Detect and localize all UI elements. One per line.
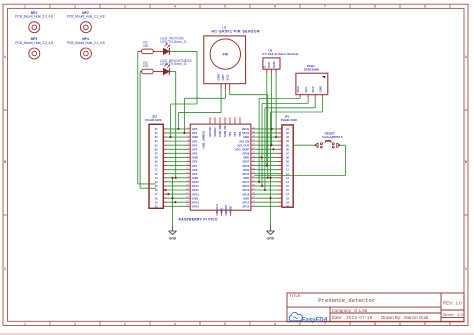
svg-text:08: 08 xyxy=(155,157,158,160)
pin JP2.12 xyxy=(163,173,167,175)
svg-text:01: 01 xyxy=(286,128,289,131)
wire Pico to JP1 pin 20 xyxy=(254,205,278,207)
pin U3 left GP11 xyxy=(186,184,190,186)
svg-text:05: 05 xyxy=(155,144,158,147)
svg-text:GP19: GP19 xyxy=(242,188,249,192)
pin U3 right GP16 xyxy=(251,205,256,207)
svg-text:3V3_EN: 3V3_EN xyxy=(239,139,249,143)
pin U3 right 3V3_OUT xyxy=(251,144,256,146)
wire Pico to JP1 pin 5 xyxy=(254,144,278,146)
wire Pico to JP1 pin 12 xyxy=(254,173,278,175)
wire JP2 pin 2 to Pico xyxy=(167,132,187,134)
wire Pico to JP1 pin 9 xyxy=(254,160,278,162)
svg-text:GP1: GP1 xyxy=(192,131,198,135)
mounting hole MP3 xyxy=(15,37,53,59)
svg-text:GP21: GP21 xyxy=(242,180,249,184)
svg-text:GND: GND xyxy=(243,196,249,200)
wire PCB1 SCL xyxy=(262,97,308,186)
svg-text:ADC_VREF: ADC_VREF xyxy=(235,147,250,151)
wire JP2 pin 3 to Pico xyxy=(167,136,187,138)
svg-text:VCC: VCC xyxy=(267,61,271,68)
pin JP1.15 xyxy=(278,185,282,187)
wire Pico to JP1 pin 11 xyxy=(254,169,278,171)
pin U3 top USB_DM xyxy=(219,117,221,124)
svg-text:PCB_Mount_Hole_2.2_4.8: PCB_Mount_Hole_2.2_4.8 xyxy=(67,41,105,45)
PIR sensor U1 HC-SR501 xyxy=(204,26,260,84)
pin U3 right GP19 xyxy=(251,188,256,190)
pin JP1.8 xyxy=(278,156,282,158)
svg-text:GP26: GP26 xyxy=(242,164,249,168)
pin JP1.11 xyxy=(278,169,282,171)
pin JP1.9 xyxy=(278,160,282,162)
wire Pico to JP1 pin 14 xyxy=(254,181,278,183)
wire JP2 pin 1 to Pico xyxy=(167,128,187,130)
pin JP2.17 xyxy=(163,193,167,195)
wire Pico to JP1 pin 1 xyxy=(254,128,278,130)
svg-text:220: 220 xyxy=(143,64,149,68)
svg-text:PCB_Mount_Hole_2.2_4.8: PCB_Mount_Hole_2.2_4.8 xyxy=(15,15,53,19)
svg-text:HC-SR501 PIR SENSOR: HC-SR501 PIR SENSOR xyxy=(212,30,261,34)
svg-text:7: 7 xyxy=(324,5,326,9)
svg-text:GP15: GP15 xyxy=(192,205,199,209)
wire JP2 pin 4 to Pico xyxy=(167,140,187,142)
pin JP2.20 xyxy=(163,205,167,207)
svg-text:SWCLK: SWCLK xyxy=(208,127,212,137)
LED LED2 LED_BRIGHTNESS xyxy=(160,59,192,75)
pin U1.1 xyxy=(220,84,222,90)
svg-text:GND: GND xyxy=(192,176,198,180)
svg-text:GP4: GP4 xyxy=(192,147,198,151)
wire JP2 pin 16 to Pico xyxy=(167,189,187,191)
wire JP2 pin 15 to Pico xyxy=(167,185,187,187)
wire Pico to JP1 pin 15 xyxy=(254,185,278,187)
svg-text:REV:: REV: xyxy=(443,300,453,305)
pin JP2.2 xyxy=(163,132,167,134)
resistor R2 xyxy=(140,61,163,74)
pin JP2.11 xyxy=(163,169,167,171)
LED LED1 LED_MOTION xyxy=(160,36,186,54)
svg-text:VBUS: VBUS xyxy=(242,127,250,131)
wire RESET left xyxy=(293,144,316,146)
pin U3 right ADC_VREF xyxy=(251,148,256,150)
pin JP1.1 xyxy=(278,128,282,130)
mounting hole MP2 xyxy=(67,11,105,33)
pin U3 right VSYS xyxy=(251,131,256,133)
pin U3 left GP7 xyxy=(186,164,190,166)
svg-text:GND: GND xyxy=(169,236,177,240)
pin U3 right GP21 xyxy=(251,180,256,182)
svg-text:TP6: TP6 xyxy=(238,131,242,137)
pin U3 left GND xyxy=(186,176,190,178)
MCU module U3 RASPBERRY PI PICO xyxy=(179,124,251,221)
svg-text:8: 8 xyxy=(374,5,376,9)
pin JP2.16 xyxy=(163,189,167,191)
svg-text:GP5: GP5 xyxy=(192,152,198,156)
wire JP2 pin 6 to Pico xyxy=(167,148,187,150)
pin U2.1 xyxy=(266,69,268,73)
svg-text:SSD1306N: SSD1306N xyxy=(304,68,319,72)
svg-text:GP12: GP12 xyxy=(192,188,199,192)
pin U3 right GP22 xyxy=(251,172,256,174)
pin JP1.13 xyxy=(278,177,282,179)
pin U3 right VBUS xyxy=(251,127,256,129)
pin U3 left GP4 xyxy=(187,148,191,150)
svg-text:06: 06 xyxy=(286,148,289,151)
svg-text:GP13: GP13 xyxy=(192,192,199,196)
svg-text:GP16: GP16 xyxy=(242,205,249,209)
svg-text:KY-018 Arduino Module: KY-018 Arduino Module xyxy=(263,52,299,56)
pin U3 right GP27 xyxy=(251,160,256,162)
svg-text:6: 6 xyxy=(274,5,276,9)
svg-text:B: B xyxy=(465,160,468,164)
svg-text:01: 01 xyxy=(155,128,158,131)
svg-text:9: 9 xyxy=(424,322,426,326)
wire JP2 pin 8 to Pico xyxy=(167,156,187,158)
svg-text:B: B xyxy=(4,160,7,164)
svg-text:220: 220 xyxy=(143,44,149,48)
pin JP1.14 xyxy=(278,181,282,183)
svg-text:GP2: GP2 xyxy=(192,139,198,143)
pin PCB1.1 xyxy=(299,95,301,98)
pin U3 right GP20 xyxy=(251,184,256,186)
pin U3 left GP8 xyxy=(186,168,190,170)
header JP2 PinHD-1X20 xyxy=(146,115,164,209)
svg-text:6: 6 xyxy=(274,322,276,326)
svg-text:11: 11 xyxy=(155,169,158,172)
wire Pico to JP1 pin 3 xyxy=(254,136,278,138)
pin JP2.4 xyxy=(163,140,167,142)
pin JP2.14 xyxy=(163,181,167,183)
svg-text:Date:: Date: xyxy=(332,315,343,320)
pin U2.2 xyxy=(270,69,272,73)
title block xyxy=(287,293,464,322)
svg-text:3: 3 xyxy=(124,322,126,326)
svg-text:GP18: GP18 xyxy=(242,192,249,196)
pin U3 bottom AGND xyxy=(230,210,232,216)
pin JP1.7 xyxy=(278,152,282,154)
svg-text:G.LAB: G.LAB xyxy=(354,308,367,313)
header JP1 PinHD-1X20 xyxy=(281,115,297,209)
svg-text:GP9: GP9 xyxy=(192,172,198,176)
svg-text:GND: GND xyxy=(267,236,275,240)
pin PCB1.4 xyxy=(321,95,323,98)
svg-text:PIR: PIR xyxy=(223,52,229,56)
wire JP2 pin 20 to Pico xyxy=(167,205,187,207)
svg-text:19: 19 xyxy=(286,201,289,204)
pin U3 top USB_DP xyxy=(224,117,226,124)
EasyEDA logo xyxy=(289,312,327,323)
svg-text:GND: GND xyxy=(243,156,249,160)
svg-text:5: 5 xyxy=(224,322,226,326)
svg-text:SCL: SCL xyxy=(304,86,308,92)
svg-text:PCB_Mount_Hole_2.2_4.8: PCB_Mount_Hole_2.2_4.8 xyxy=(67,15,105,19)
svg-text:2: 2 xyxy=(74,5,76,9)
pin JP1.4 xyxy=(278,140,282,142)
svg-text:18: 18 xyxy=(286,197,289,200)
pin U3 left GP0 xyxy=(187,127,191,129)
svg-text:1/1: 1/1 xyxy=(457,312,464,317)
wire Pico to JP1 pin 10 xyxy=(254,165,278,167)
svg-text:TITLE:: TITLE: xyxy=(290,293,302,298)
svg-text:C: C xyxy=(4,267,7,271)
wire U2 GND xyxy=(275,73,277,137)
svg-text:2: 2 xyxy=(74,322,76,326)
svg-text:Company:: Company: xyxy=(332,308,353,313)
pin U3 left GP15 xyxy=(186,205,190,207)
svg-text:SWDIO: SWDIO xyxy=(213,126,217,136)
wire Pico to JP1 pin 13 xyxy=(254,177,278,179)
svg-text:SDA: SDA xyxy=(296,85,300,92)
pin JP1.3 xyxy=(278,136,282,138)
pin JP2.19 xyxy=(163,201,167,203)
pin U3 left GP9 xyxy=(186,172,190,174)
svg-text:3: 3 xyxy=(124,5,126,9)
pin U2.3 xyxy=(275,69,277,73)
pin PCB1.3 xyxy=(314,95,316,98)
pin JP2.8 xyxy=(163,156,167,158)
svg-text:C: C xyxy=(465,267,468,271)
svg-text:GP11: GP11 xyxy=(192,184,199,188)
wire LED2 cathode to GND xyxy=(169,72,175,178)
svg-text:5: 5 xyxy=(224,5,226,9)
svg-text:15: 15 xyxy=(155,185,158,188)
wire right GND bus xyxy=(270,198,272,226)
mounting hole MP1 xyxy=(15,11,53,33)
svg-text:Marcel Glab: Marcel Glab xyxy=(404,315,429,320)
svg-text:3V3_OUT: 3V3_OUT xyxy=(237,143,249,147)
pin JP2.9 xyxy=(163,160,167,162)
svg-text:18: 18 xyxy=(155,197,158,200)
svg-text:EasyEDA: EasyEDA xyxy=(302,317,328,323)
pin U3 left GND xyxy=(187,156,191,158)
wire JP2 pin 19 to Pico xyxy=(167,201,187,203)
svg-text:S: S xyxy=(263,66,267,68)
svg-text:09: 09 xyxy=(155,161,158,164)
svg-text:13: 13 xyxy=(155,177,158,180)
svg-text:16: 16 xyxy=(155,189,158,192)
svg-text:10: 10 xyxy=(286,165,289,168)
svg-text:17: 17 xyxy=(155,193,158,196)
wire JP2 pin 17 to Pico xyxy=(167,193,187,195)
svg-text:1: 1 xyxy=(24,5,26,9)
wire U2 VCC xyxy=(270,73,272,145)
svg-text:1.0: 1.0 xyxy=(455,300,462,305)
pin U1.3 xyxy=(229,84,231,90)
pin JP1.19 xyxy=(278,201,282,203)
junction dots xyxy=(164,128,277,203)
wire JP2 pin 13 to Pico xyxy=(167,177,187,179)
svg-text:USB_DP: USB_DP xyxy=(223,125,227,136)
svg-text:A: A xyxy=(465,55,468,59)
wire U1 pin3 to right bus xyxy=(230,90,268,178)
pin U3 right GND xyxy=(251,135,256,137)
pin JP1.2 xyxy=(278,132,282,134)
svg-text:LED-TH-5mm_G: LED-TH-5mm_G xyxy=(160,40,186,44)
svg-text:15: 15 xyxy=(286,185,289,188)
pin JP2.15 xyxy=(163,185,167,187)
pin U3 right GP17 xyxy=(251,201,256,203)
svg-text:SCK: SCK xyxy=(311,85,315,92)
svg-text:GP27: GP27 xyxy=(242,160,249,164)
wire RESET right loop xyxy=(254,145,345,175)
svg-text:VSYS: VSYS xyxy=(242,131,249,135)
svg-text:LED-TH-5mm_G: LED-TH-5mm_G xyxy=(160,62,186,66)
pin JP1.6 xyxy=(278,148,282,150)
wire Pico to JP1 pin 4 xyxy=(254,140,278,142)
wire R2 input net xyxy=(140,72,156,189)
pin PCB1.2 xyxy=(307,95,309,98)
svg-text:button4P9T3.5: button4P9T3.5 xyxy=(323,135,343,139)
svg-text:GP22: GP22 xyxy=(242,172,249,176)
pin U3 left GP3 xyxy=(187,144,191,146)
svg-text:02: 02 xyxy=(286,132,289,135)
svg-text:8: 8 xyxy=(374,322,376,326)
pin JP2.6 xyxy=(163,148,167,150)
pin U3 right GP28 xyxy=(251,152,256,154)
svg-text:GP20: GP20 xyxy=(242,184,249,188)
pin U3 top SWDIO xyxy=(214,117,216,124)
ground GND right xyxy=(267,226,275,240)
svg-text:GND: GND xyxy=(243,176,249,180)
svg-text:16: 16 xyxy=(286,189,289,192)
wire Pico to JP1 pin 17 xyxy=(254,193,278,195)
wire left GND bus xyxy=(172,178,174,226)
pin JP2.1 xyxy=(163,128,167,130)
svg-text:09: 09 xyxy=(286,161,289,164)
pin U3 left GP1 xyxy=(187,131,191,133)
svg-text:RUN: RUN xyxy=(243,168,249,172)
svg-text:VCC: VCC xyxy=(225,73,229,80)
svg-text:14: 14 xyxy=(286,181,289,184)
svg-text:GP17: GP17 xyxy=(242,200,249,204)
svg-text:Drawn By:: Drawn By: xyxy=(381,315,401,320)
wire JP2 pin 12 to Pico xyxy=(167,173,187,175)
svg-text:PCB_Mount_Hole_2.2_4.8: PCB_Mount_Hole_2.2_4.8 xyxy=(15,41,53,45)
svg-text:GND: GND xyxy=(192,135,198,139)
wire JP2 pin 14 to Pico xyxy=(167,181,187,183)
svg-text:GND: GND xyxy=(192,196,198,200)
pin U3 left GND xyxy=(186,197,190,199)
svg-text:Presence_detector: Presence_detector xyxy=(318,297,375,304)
pin U3 right RUN xyxy=(251,168,256,170)
pin U3 left GND xyxy=(187,135,191,137)
pin JP1.18 xyxy=(278,197,282,199)
svg-text:03: 03 xyxy=(286,136,289,139)
pin JP2.3 xyxy=(163,136,167,138)
svg-text:GP7: GP7 xyxy=(192,164,198,168)
wire PCB1 SDA xyxy=(259,97,300,182)
svg-text:4: 4 xyxy=(174,322,176,326)
wire Pico to JP1 pin 19 xyxy=(254,201,278,203)
pin JP2.7 xyxy=(163,152,167,154)
svg-text:02: 02 xyxy=(155,132,158,135)
pin U3 left GP5 xyxy=(187,152,191,154)
wire PCB1 VCC xyxy=(265,97,315,190)
svg-text:GND: GND xyxy=(192,156,198,160)
wire JP2 pin 9 to Pico xyxy=(167,160,187,162)
svg-text:10: 10 xyxy=(155,165,158,168)
wire JP2 pin 18 to Pico xyxy=(167,197,187,199)
pin U3 left GP12 xyxy=(186,188,190,190)
wire LED1 cathode to GND xyxy=(169,51,197,137)
pin U3 left GP10 xyxy=(186,180,190,182)
svg-text:USB_DM: USB_DM xyxy=(218,124,222,136)
wire JP2 pin 11 to Pico xyxy=(167,169,187,171)
svg-text:13: 13 xyxy=(286,177,289,180)
svg-text:GP3: GP3 xyxy=(192,143,198,147)
wire U1 pin2 to GP1 row xyxy=(184,90,225,133)
wire Pico to JP1 pin 16 xyxy=(254,189,278,191)
svg-text:04: 04 xyxy=(155,140,158,143)
pin U3 left GP14 xyxy=(186,201,190,203)
svg-text:9: 9 xyxy=(424,5,426,9)
svg-text:12: 12 xyxy=(155,173,158,176)
pin JP1.17 xyxy=(278,193,282,195)
svg-text:TP5: TP5 xyxy=(233,131,237,137)
svg-text:19: 19 xyxy=(155,201,158,204)
pin JP1.12 xyxy=(278,173,282,175)
svg-text:1: 1 xyxy=(24,322,26,326)
pin JP2.10 xyxy=(163,165,167,167)
pin JP1.5 xyxy=(278,144,282,146)
wire Pico to JP1 pin 8 xyxy=(254,156,278,158)
pin U3 top SWCLK xyxy=(209,117,211,124)
pin JP1.16 xyxy=(278,189,282,191)
wire R1 input net xyxy=(138,51,156,184)
wire Pico to JP1 pin 18 xyxy=(254,197,278,199)
pushbutton SW1 RESET xyxy=(315,132,343,149)
svg-text:04: 04 xyxy=(286,140,289,143)
svg-text:GP0: GP0 xyxy=(192,127,198,131)
svg-text:GP6: GP6 xyxy=(192,160,198,164)
svg-text:TP4: TP4 xyxy=(228,131,232,137)
pin JP1.20 xyxy=(278,205,282,207)
display header PCB1 SSD1306N xyxy=(296,64,328,95)
pin U3 right GP26 xyxy=(251,164,256,166)
svg-text:11: 11 xyxy=(286,169,289,172)
pin U3 right GND xyxy=(251,176,256,178)
pin U3 right GND xyxy=(251,197,256,199)
svg-text:RASPBERRY PI PICO: RASPBERRY PI PICO xyxy=(179,218,218,222)
pin U3 bottom SWDIO xyxy=(225,210,227,216)
pin U3 left GP13 xyxy=(186,192,190,194)
svg-text:GND: GND xyxy=(318,85,322,93)
svg-text:PinHD-1X20: PinHD-1X20 xyxy=(281,118,297,122)
svg-text:07: 07 xyxy=(286,152,289,155)
wire Pico to JP1 pin 7 xyxy=(254,152,278,154)
module U2 KY-018 xyxy=(263,48,299,69)
pin U3 right GP18 xyxy=(251,192,256,194)
svg-text:GP14: GP14 xyxy=(192,200,199,204)
pin U3 bottom SWCLK xyxy=(216,210,218,216)
pin U3 bottom GND xyxy=(221,210,223,216)
svg-text:07: 07 xyxy=(155,152,158,155)
svg-text:17: 17 xyxy=(286,193,289,196)
svg-text:05: 05 xyxy=(286,144,289,147)
svg-text:14: 14 xyxy=(155,181,158,184)
pin U3 left GP2 xyxy=(187,140,191,142)
pin U3 top TP4 xyxy=(229,117,231,124)
pin JP2.13 xyxy=(163,177,167,179)
pin U3 right 3V3_EN xyxy=(251,140,256,142)
pin JP2.18 xyxy=(163,197,167,199)
svg-text:GP10: GP10 xyxy=(192,180,199,184)
wire Pico to JP1 pin 6 xyxy=(254,148,278,150)
wire JP2 pin 5 to Pico xyxy=(167,144,187,146)
svg-text:03: 03 xyxy=(155,136,158,139)
svg-text:4: 4 xyxy=(174,5,176,9)
svg-text:GP28: GP28 xyxy=(242,152,249,156)
